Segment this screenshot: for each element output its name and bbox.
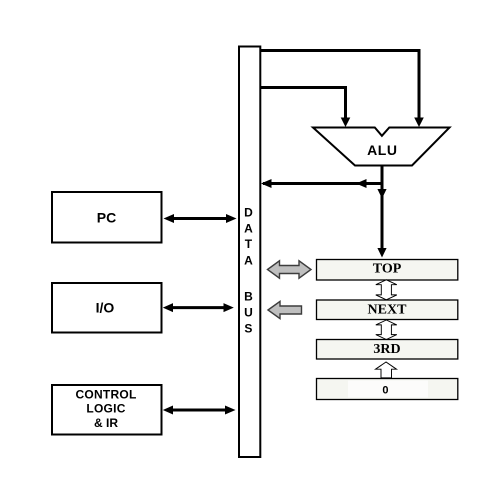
wire control-bus bidirectional [171, 409, 227, 412]
svg-text:CONTROL: CONTROL [75, 387, 136, 401]
data bus rectangle [239, 47, 260, 458]
hollow up arrow 0-3RD [376, 362, 397, 378]
arrowhead mid pointing left [356, 179, 367, 188]
wire PC-bus bidirectional [172, 217, 228, 220]
svg-text:U: U [244, 305, 253, 319]
svg-text:3RD: 3RD [373, 342, 400, 357]
arrowhead into ALU right input [414, 118, 424, 128]
svg-text:ALU: ALU [367, 142, 397, 158]
arrowhead at bus (PC) [226, 214, 237, 223]
arrowhead at PC [164, 214, 175, 223]
register PC [52, 192, 162, 243]
control logic labels [75, 387, 136, 430]
gray bidirectional arrow bus-TOP [268, 261, 312, 278]
wire bus-to-ALU left input [260, 88, 346, 121]
svg-text:D: D [244, 205, 253, 219]
arrowhead at I/O [163, 303, 173, 312]
arrowhead mid on ALU output [377, 189, 386, 199]
data bus label DATA [244, 205, 253, 335]
svg-text:T: T [245, 237, 253, 251]
arrowhead at bus (I/O) [224, 303, 234, 312]
register I/O [52, 283, 162, 333]
svg-text:NEXT: NEXT [368, 303, 408, 318]
svg-text:PC: PC [97, 210, 116, 226]
wire bus-to-ALU right input [260, 51, 419, 121]
svg-text:S: S [244, 321, 252, 335]
arrowhead into ALU left input [341, 118, 351, 128]
arrowhead into TOP register [377, 248, 386, 258]
register TOP [317, 260, 458, 281]
arrowhead at control box [163, 406, 173, 415]
hollow double arrow NEXT-3RD [376, 320, 397, 340]
svg-text:0: 0 [382, 385, 388, 397]
hollow double arrow TOP-NEXT [376, 280, 397, 300]
wire I/O-bus bidirectional [171, 306, 226, 309]
svg-text:TOP: TOP [373, 261, 402, 276]
svg-text:LOGIC: LOGIC [86, 402, 125, 416]
svg-text:A: A [244, 253, 253, 267]
svg-text:& IR: & IR [94, 416, 118, 430]
wire ALU output down to TOP [381, 166, 384, 251]
svg-text:B: B [244, 289, 253, 303]
control logic box [52, 385, 162, 435]
svg-text:I/O: I/O [96, 300, 115, 316]
register 3RD [317, 340, 458, 360]
arrowhead into bus [261, 179, 272, 188]
register 0 [317, 379, 458, 400]
arrowhead at bus (control) [225, 406, 236, 415]
gray arrow NEXT-to-bus [268, 301, 302, 318]
wire ALU output to bus [263, 182, 382, 185]
register NEXT [317, 300, 458, 320]
ALU trapezoid [313, 128, 450, 166]
svg-text:A: A [244, 222, 253, 236]
